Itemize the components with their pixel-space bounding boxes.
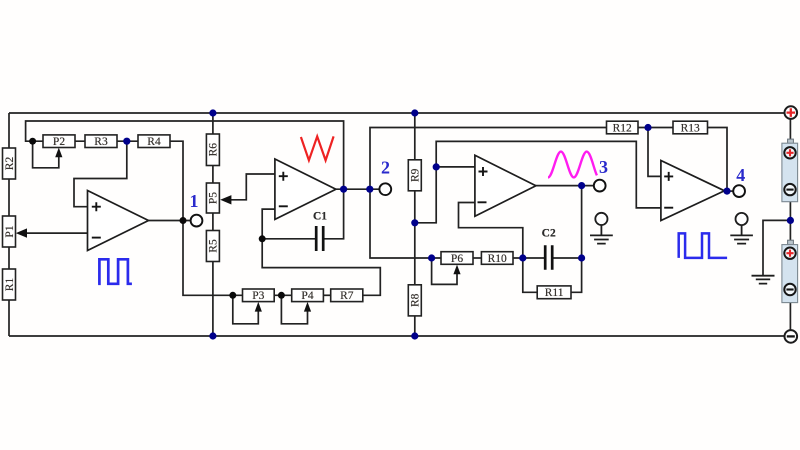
wire node2 vertical to R12 and P6	[370, 128, 607, 259]
svg-text:2: 2	[381, 158, 390, 178]
junction P6 left	[428, 254, 435, 261]
waveform square wave at op4	[679, 233, 727, 258]
wire P2-R3-R4 row to op1 output and P3 row	[43, 141, 243, 295]
resistor R5	[206, 231, 219, 262]
junction R12-R13 node	[644, 124, 651, 131]
wire R11 loop	[523, 258, 582, 292]
wire P4 to R7	[323, 294, 330, 296]
svg-text:R7: R7	[340, 290, 354, 302]
arrow P3 wiper	[255, 302, 262, 312]
svg-text:P3: P3	[252, 290, 264, 302]
wire left rail	[8, 113, 10, 336]
resistor R12	[607, 121, 639, 134]
wire battery top	[789, 119, 791, 143]
svg-text:1: 1	[190, 191, 199, 211]
wire triangle feedback rail / C1 right	[26, 121, 344, 239]
junction C2 right	[578, 254, 585, 261]
op-amp U3 minus input sign	[478, 201, 487, 203]
terminal output 3	[594, 180, 606, 192]
op-amp U4 plus input sign	[664, 172, 673, 181]
wire P5 wiper to op2 noninverting input	[231, 174, 275, 200]
resistor R1	[3, 269, 16, 300]
wire R9 bottom to op3 noninverting input	[415, 167, 475, 223]
potentiometer P5	[206, 183, 219, 213]
wire P6 to R10	[473, 257, 481, 259]
wire P6 wiper loop	[432, 258, 457, 284]
wire top +V rail	[9, 112, 784, 114]
earth terminal near output 3	[590, 213, 613, 244]
junction top rail R6	[209, 109, 216, 116]
wire P4 wiper loop	[281, 295, 307, 324]
wire battery middle junction	[789, 202, 791, 241]
arrow P6 wiper	[453, 265, 460, 275]
wire op3 inverting input path	[459, 203, 523, 259]
waveform triangle wave at op2	[301, 136, 334, 160]
svg-text:R13: R13	[681, 123, 700, 135]
svg-text:P1: P1	[4, 225, 16, 237]
junction op3 output	[578, 182, 585, 189]
op-amp U4 minus input sign	[664, 207, 673, 209]
junction op3 noninverting node	[433, 163, 440, 170]
capacitor C2	[545, 245, 552, 270]
wire R9-R8 column	[414, 113, 416, 336]
svg-text:R10: R10	[488, 253, 507, 265]
wire C1 left	[262, 238, 317, 240]
junction bottom rail R8	[411, 332, 418, 339]
junction P4 left	[278, 292, 285, 299]
wire op1 output	[149, 220, 191, 222]
svg-text:R12: R12	[613, 123, 632, 135]
resistor R3	[85, 135, 117, 148]
capacitor C1	[316, 226, 323, 251]
wire C1 node down to R7	[262, 239, 380, 295]
wire op3 output	[535, 185, 594, 187]
svg-text:R4: R4	[147, 136, 161, 148]
junction op1 output	[180, 217, 187, 224]
wire P2 wiper loop	[33, 141, 59, 168]
junction op2 output C1	[340, 186, 347, 193]
svg-text:R5: R5	[208, 239, 220, 253]
junction P3 left	[229, 292, 236, 299]
arrow P1 wiper	[16, 228, 27, 237]
svg-text:4: 4	[736, 165, 745, 185]
junction op4 output	[723, 188, 730, 195]
terminal -V supply	[785, 330, 798, 343]
battery cell B1	[782, 139, 798, 202]
resistor R13	[673, 121, 708, 134]
wire C2 right	[553, 257, 581, 259]
wire op3 feedback vertical	[581, 186, 583, 258]
wire C1 node to op2 inverting input	[262, 209, 275, 239]
svg-text:R11: R11	[545, 287, 564, 299]
svg-text:3: 3	[599, 157, 608, 177]
resistor R4	[138, 135, 170, 148]
terminal output 2	[379, 183, 391, 195]
svg-text:P4: P4	[301, 290, 313, 302]
resistor R11	[537, 286, 571, 299]
junction battery middle	[787, 217, 794, 224]
waveform square wave at op1	[98, 259, 132, 284]
svg-text:R3: R3	[94, 136, 108, 148]
junction top rail R9	[411, 109, 418, 116]
ground battery midpoint	[752, 276, 775, 284]
resistor R8	[408, 285, 421, 316]
wire R12 node to op4 noninverting input	[648, 128, 661, 177]
arrow P4 wiper	[304, 302, 311, 312]
svg-text:C1: C1	[313, 211, 327, 223]
potentiometer P1	[3, 216, 16, 247]
op-amp U2 plus input sign	[279, 172, 288, 181]
op-amp U1	[88, 191, 149, 251]
wire P1 wiper to op1 inverting input	[24, 232, 89, 234]
potentiometer P4	[292, 289, 324, 302]
junction R3-R4 node	[123, 138, 130, 145]
op-amp U1 plus input sign	[92, 202, 101, 211]
junction bottom rail R5	[209, 332, 216, 339]
waveform sine wave at op3	[548, 152, 597, 178]
op-amp U2 minus input sign	[279, 205, 288, 207]
wire battery ground tap	[763, 220, 790, 275]
svg-text:R1: R1	[4, 278, 16, 292]
terminal +V supply	[785, 106, 798, 119]
wire P3 to P4	[274, 294, 292, 296]
wire R12 to R13	[638, 127, 673, 129]
terminal output 4	[733, 185, 745, 197]
arrow P2 wiper	[55, 148, 62, 158]
op-amp U2	[275, 159, 336, 219]
battery cell B2	[782, 240, 798, 302]
junction C2 left	[519, 254, 526, 261]
wire op1 noninverting input path	[74, 141, 127, 207]
wire op4 output	[724, 190, 733, 192]
potentiometer P2	[43, 135, 75, 148]
op-amp U3 plus input sign	[479, 167, 488, 176]
wire op3 noninverting node to op4 inverting input	[436, 141, 661, 208]
svg-text:C2: C2	[542, 228, 556, 240]
wire op2 output	[335, 188, 379, 190]
wire bottom rail	[9, 335, 784, 337]
potentiometer P3	[243, 289, 275, 302]
junction C1 left	[259, 235, 266, 242]
resistor R7	[331, 289, 363, 302]
svg-text:R8: R8	[410, 293, 422, 307]
op-amp U3	[475, 155, 536, 216]
junction R9 bottom	[411, 219, 418, 226]
wire P3 wiper loop	[233, 295, 258, 324]
svg-text:P6: P6	[451, 253, 463, 265]
terminal output 1	[191, 215, 203, 227]
resistor R9	[408, 160, 421, 191]
resistor R6	[206, 134, 219, 166]
resistor R10	[481, 252, 513, 265]
op-amp U1 minus input sign	[92, 237, 101, 239]
op-amp U4	[661, 161, 725, 221]
svg-text:P5: P5	[208, 192, 220, 204]
svg-text:R2: R2	[4, 157, 16, 171]
arrow P5 wiper	[220, 195, 231, 204]
wire R13 to op4 output	[708, 128, 728, 192]
wire battery bottom	[789, 303, 791, 331]
svg-text:R6: R6	[208, 143, 220, 157]
svg-text:P2: P2	[53, 136, 65, 148]
svg-text:R9: R9	[410, 168, 422, 182]
junction node 2	[366, 186, 373, 193]
wire R6-P5-R5 column	[212, 113, 214, 336]
potentiometer P6	[441, 252, 473, 265]
junction P2 left	[29, 138, 36, 145]
earth terminal near output 4	[730, 213, 753, 244]
resistor R2	[3, 148, 16, 179]
wire R10 to C2	[513, 257, 544, 259]
